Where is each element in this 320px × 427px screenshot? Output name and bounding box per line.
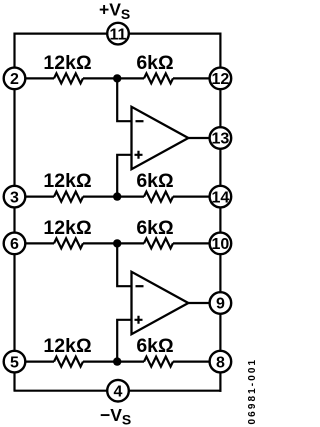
wire row pin6 lead — [15, 242, 55, 244]
svg-text:12kΩ: 12kΩ — [43, 52, 91, 74]
op-amp A1 inverting input minus sign — [136, 120, 144, 122]
pin 6 — [4, 233, 26, 255]
node A (junction row 1) — [113, 74, 121, 82]
op-amp A2 non-inverting input plus sign — [135, 316, 143, 324]
wire opamp2 output to pin9 — [188, 302, 220, 304]
svg-text:12: 12 — [212, 71, 230, 88]
wire row pin3 lead — [15, 196, 55, 198]
svg-text:12kΩ: 12kΩ — [43, 335, 91, 357]
wire top bus — [15, 32, 221, 34]
op-amp A2 inverting input minus sign — [136, 285, 144, 287]
svg-text:6: 6 — [10, 236, 19, 253]
pin 9 — [210, 292, 232, 314]
resistor 12k (row 4) — [54, 357, 83, 367]
pin 12 — [210, 68, 232, 90]
svg-text:6kΩ: 6kΩ — [136, 52, 173, 74]
wire bottom bus — [14, 390, 222, 392]
node B (junction row 2) — [113, 192, 121, 200]
resistor 12k (row 3) — [54, 238, 83, 248]
pin 13 — [210, 127, 232, 149]
wire row2 mid — [83, 196, 144, 198]
svg-text:10: 10 — [212, 236, 230, 253]
svg-text:9: 9 — [216, 296, 225, 313]
node D (junction row 4) — [113, 357, 121, 365]
resistor 12k (row 1) — [54, 73, 83, 83]
wire opamp1 output to pin13 — [188, 137, 220, 139]
svg-text:12kΩ: 12kΩ — [43, 217, 91, 239]
wire row pin2 lead — [15, 77, 55, 79]
svg-text:8: 8 — [216, 354, 225, 371]
wire row3 to pin10 — [173, 242, 220, 244]
pin 14 — [210, 186, 232, 208]
wire row3 mid — [83, 242, 144, 244]
pin 10 — [210, 233, 232, 255]
svg-text:2: 2 — [10, 71, 19, 88]
resistor 6k (row 2) — [144, 192, 173, 202]
pin 3 — [4, 186, 26, 208]
svg-text:3: 3 — [10, 189, 19, 206]
wire node1 to opamp minus input — [117, 78, 131, 121]
op-amp A2 — [132, 272, 189, 334]
op-amp A1 — [132, 107, 189, 169]
node C (junction row 3) — [113, 239, 121, 247]
svg-text:06981-001: 06981-001 — [247, 358, 256, 425]
wire node3 to opamp2 minus input — [117, 243, 131, 286]
wire left bus — [13, 33, 15, 391]
svg-text:5: 5 — [10, 354, 19, 371]
op-amp A1 non-inverting input plus sign — [135, 151, 143, 159]
wire row1 to pin12 — [173, 77, 220, 79]
wire row2 to pin14 — [173, 196, 220, 198]
wire row1 mid — [83, 77, 144, 79]
pin 11 — [107, 23, 129, 45]
svg-text:6kΩ: 6kΩ — [136, 170, 173, 192]
svg-text:14: 14 — [212, 189, 230, 206]
op-amp A1 triangle body — [132, 107, 189, 169]
wire opamp2 plus input to node4 — [117, 320, 131, 362]
wire right bus — [219, 33, 221, 392]
op-amp A2 triangle body — [132, 272, 189, 334]
resistor 6k (row 4) — [144, 357, 173, 367]
svg-text:11: 11 — [110, 26, 127, 43]
svg-text:12kΩ: 12kΩ — [43, 170, 91, 192]
svg-text:4: 4 — [114, 383, 123, 400]
resistor 6k (row 1) — [144, 73, 173, 83]
pin 2 — [4, 68, 26, 90]
wire opamp plus input to node2 — [117, 155, 131, 197]
wire row4 mid — [83, 361, 144, 363]
wire row pin5 lead — [15, 361, 55, 363]
resistor 6k (row 3) — [144, 238, 173, 248]
svg-text:6kΩ: 6kΩ — [136, 335, 173, 357]
pin 4 — [107, 380, 129, 402]
pin 5 — [4, 351, 26, 373]
svg-text:6kΩ: 6kΩ — [136, 217, 173, 239]
svg-text:13: 13 — [212, 131, 230, 148]
resistor 12k (row 2) — [54, 192, 83, 202]
wire row4 to pin8 — [173, 361, 220, 363]
pin 8 — [210, 351, 232, 373]
